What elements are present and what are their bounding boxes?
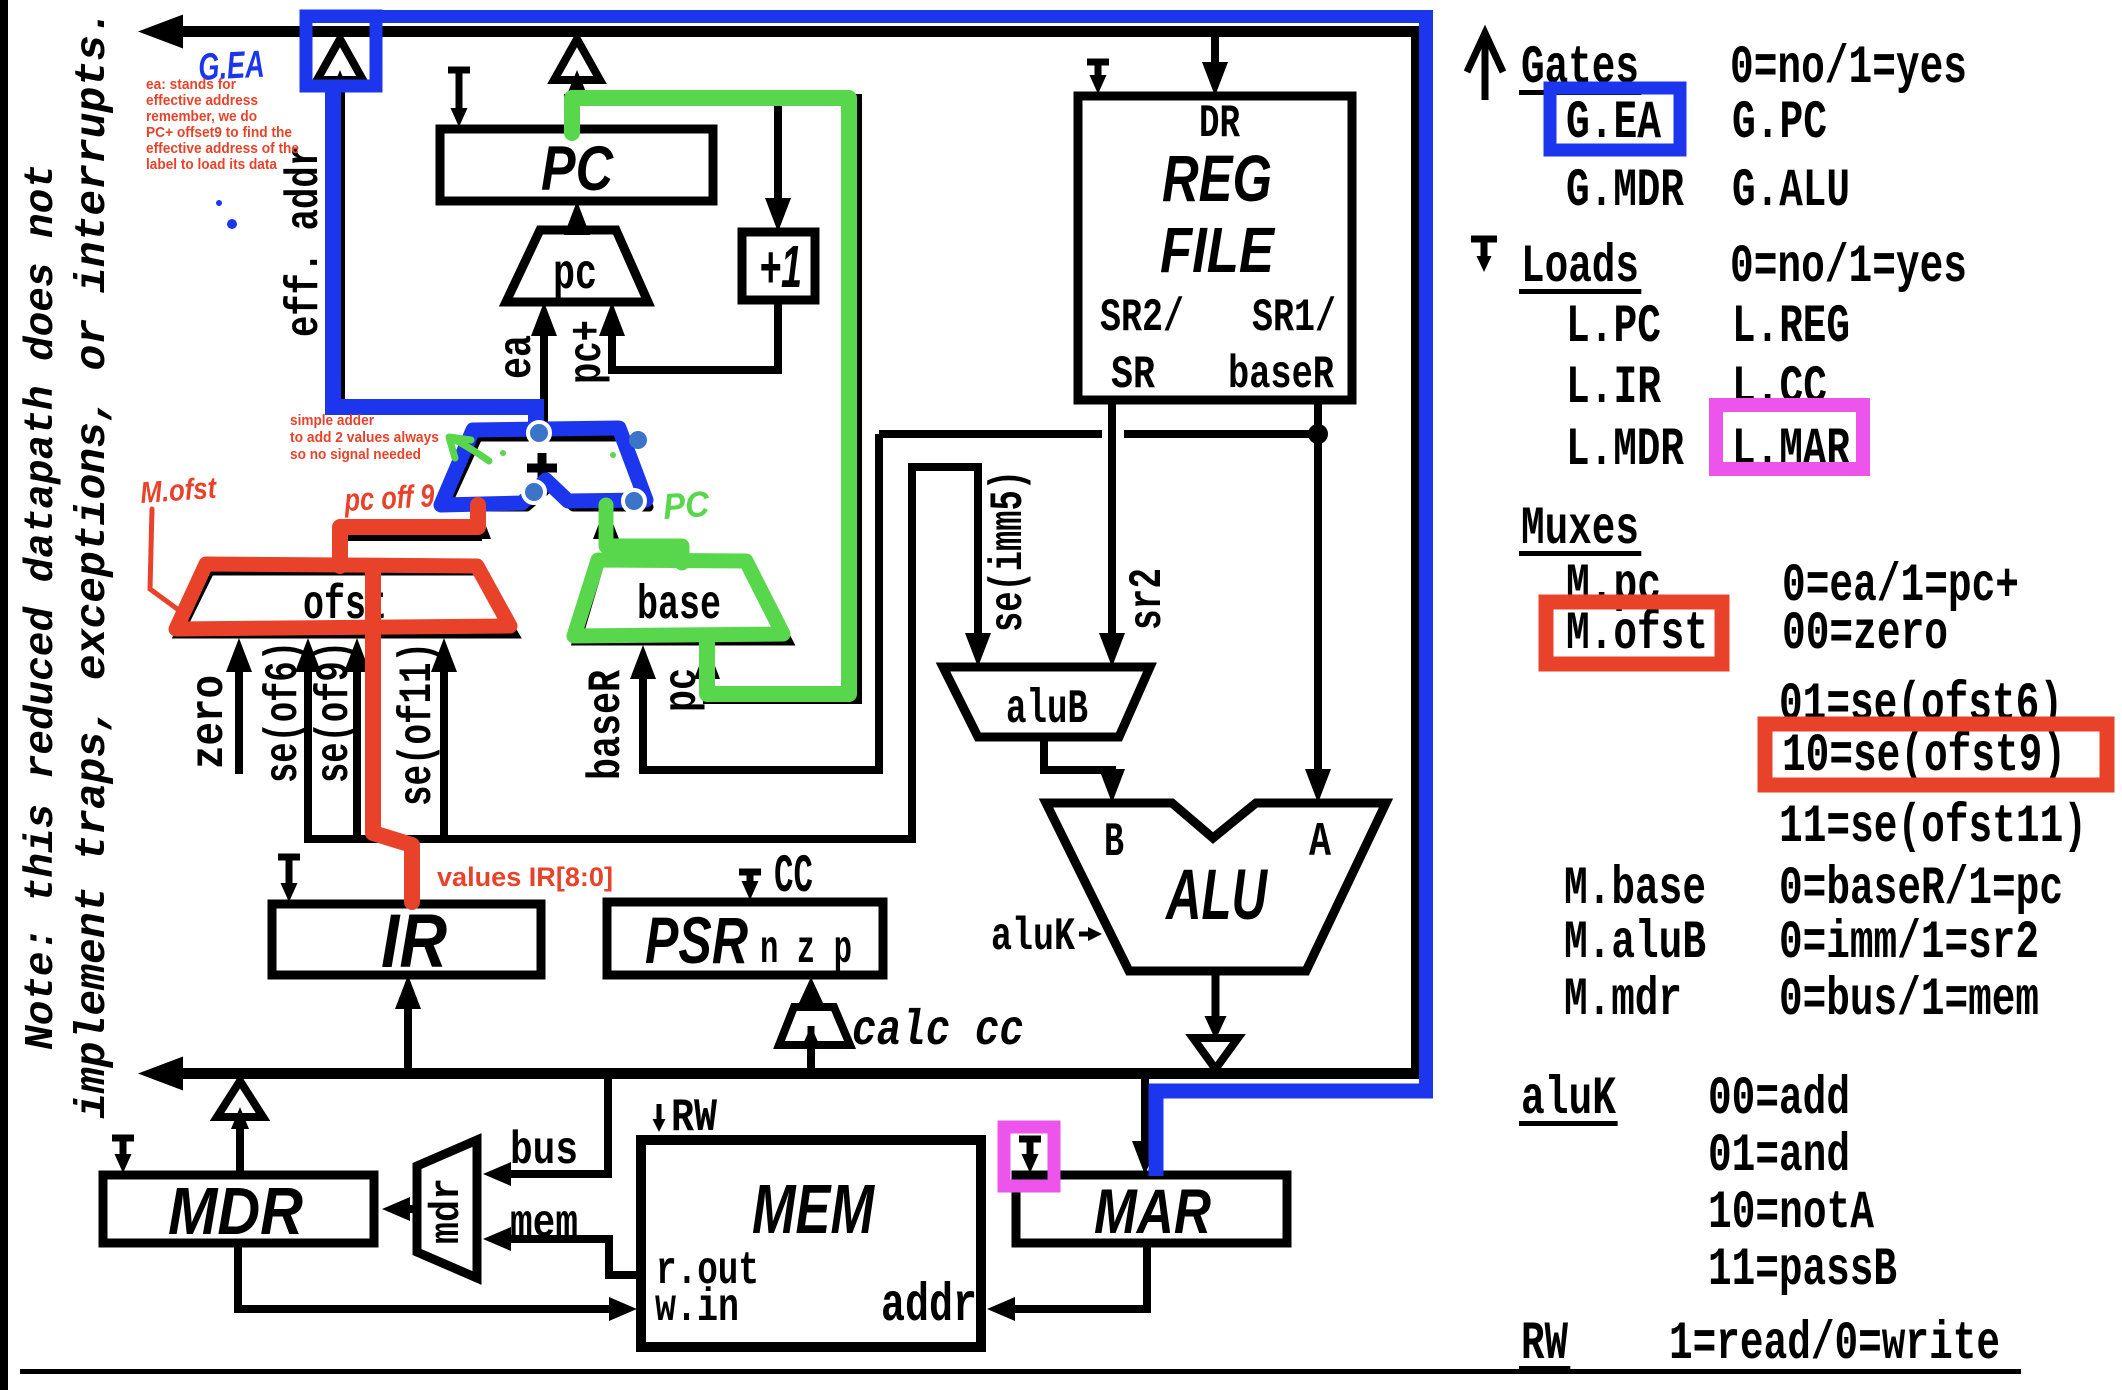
wire IR top riser to collector (404, 839, 412, 904)
svg-text:CC: CC (774, 847, 813, 908)
wire ofst-mux output to adder B input (344, 517, 478, 571)
memory MEM (641, 1140, 981, 1347)
svg-text:label to load its data: label to load its data (146, 156, 278, 173)
highlight blue bus top (G.EA to right) (300, 10, 1433, 23)
highlight green PC output wire (572, 98, 849, 694)
green speck 2 (610, 452, 616, 458)
svg-text:1=read/0=write: 1=read/0=write (1669, 1314, 2000, 1375)
handle dot bottom-left of adder (523, 481, 545, 503)
svg-text:PC: PC (662, 483, 712, 527)
svg-text:FILE: FILE (1160, 214, 1276, 286)
wire sr2 from regfile to aluB mux (1108, 400, 1116, 653)
bus bottom segment (158, 1068, 1419, 1079)
register PC (440, 129, 713, 201)
svg-text:PC+ offset9 to find the: PC+ offset9 to find the (146, 124, 292, 141)
highlight blue bus bottom jog to MAR (1156, 1091, 1433, 1176)
green hand arrow (449, 437, 489, 461)
wire baseR horizontal (gap at sr2 crossing) (879, 430, 1102, 438)
wire eff.addr: G.EA gate down to adder output branch (341, 80, 544, 411)
wire bus input to mdr mux (497, 1079, 608, 1174)
load L.CC symbol (739, 869, 761, 876)
svg-text:00=add: 00=add (1708, 1069, 1850, 1130)
node junction sr1/baseR (1308, 424, 1328, 444)
left page border line (0, 0, 8, 1390)
svg-text:aluK: aluK (991, 911, 1075, 963)
svg-text:10=notA: 10=notA (1708, 1183, 1874, 1244)
wire sr1 to ALU A input (1314, 434, 1322, 789)
wire sr1/baseR from regfile (1314, 400, 1322, 434)
svg-text:IR: IR (381, 899, 447, 984)
bus top segment (158, 26, 1419, 37)
gate G.MDR: MDR output to bus (236, 1129, 244, 1175)
svg-text:aluK: aluK (1521, 1069, 1616, 1130)
wire pc+: +1 output to M.pc mux (612, 300, 778, 370)
svg-text:M.mdr: M.mdr (1564, 970, 1682, 1031)
svg-text:baseR: baseR (1228, 349, 1334, 401)
load L.PC symbol (448, 67, 470, 74)
register MDR (103, 1175, 374, 1243)
highlight green base mux outline (574, 560, 783, 636)
svg-text:se(of6): se(of6) (258, 641, 310, 783)
svg-text:MDR: MDR (168, 1174, 303, 1249)
svg-text:values IR[8:0]: values IR[8:0] (437, 862, 613, 892)
legend blue box around G.EA (1550, 88, 1680, 150)
svg-text:simple adder: simple adder (290, 412, 374, 429)
wire bus to IR (404, 989, 412, 1068)
mux M.base (base) (577, 563, 788, 641)
wire ea: adder output up to M.pc mux (540, 316, 548, 433)
svg-text:01=and: 01=and (1708, 1126, 1850, 1187)
wire se(imm5) riser (912, 467, 978, 843)
svg-text:A: A (1309, 816, 1331, 870)
bus right segment (1411, 26, 1419, 1079)
wire +1 tap (774, 98, 782, 218)
highlight blue eff.addr wire (333, 92, 536, 430)
wire PC output loop (pc-out to +1 and base mux) (568, 98, 858, 700)
svg-text:MAR: MAR (1094, 1177, 1211, 1247)
svg-text:M.base: M.base (1564, 859, 1706, 920)
svg-text:REG: REG (1162, 141, 1272, 215)
wire base-mux output to adder A input (606, 517, 682, 563)
legend red box around M.ofst (1546, 602, 1722, 664)
legend red box around 10=se(ofst9) (1765, 724, 2107, 785)
svg-text:11=passB: 11=passB (1708, 1240, 1897, 1301)
wire baseR into base mux (643, 434, 879, 770)
svg-text:SR1/: SR1/ (1252, 292, 1336, 344)
svg-text:so no signal needed: so no signal needed (290, 446, 421, 463)
ALU (1046, 803, 1386, 971)
wire se(of9) into ofst mux (353, 652, 361, 843)
gate G.PC (tri-state onto bus) (554, 39, 600, 80)
wire se(of11) into ofst mux (440, 652, 448, 843)
svg-text:se(imm5): se(imm5) (983, 470, 1035, 632)
wire mdr mux output to MDR (398, 1205, 417, 1213)
register MAR (1016, 1175, 1287, 1243)
gate G.ALU: ALU output to bus (1212, 971, 1220, 1018)
bottom rule line (20, 1369, 2021, 1374)
bus bottom-left arrowhead (138, 1057, 183, 1091)
wire se(of6) into ofst mux (304, 652, 312, 843)
svg-text:bus: bus (510, 1125, 578, 1177)
bus top-left arrowhead (138, 15, 183, 49)
register IR (272, 904, 541, 975)
svg-text:G.MDR: G.MDR (1566, 161, 1684, 222)
highlight red IR[8:0] wire (373, 570, 412, 902)
svg-text:L.IR: L.IR (1566, 358, 1661, 419)
highlight blue box around G.EA gate (306, 16, 376, 86)
svg-text:RW: RW (671, 1092, 717, 1144)
magenta box around L.MAR load symbol at MAR (1004, 1127, 1054, 1186)
legend Loads arrow symbol (1471, 236, 1497, 243)
svg-text:w.in: w.in (655, 1282, 739, 1334)
green speck 1 (500, 450, 506, 456)
svg-text:to add 2 values always: to add 2 values always (290, 429, 439, 446)
svg-text:Muxes: Muxes (1521, 499, 1639, 560)
svg-text:implement traps, exceptions, o: implement traps, exceptions, or interrup… (68, 9, 117, 1119)
svg-text:n z p: n z p (760, 924, 852, 976)
load L.REG symbol (1087, 59, 1109, 66)
highlight green base output wire (606, 505, 682, 563)
svg-text:L.REG: L.REG (1732, 297, 1850, 358)
svg-text:L.PC: L.PC (1566, 297, 1661, 358)
wire IR-bits collector (304, 835, 916, 843)
svg-text:mdr: mdr (423, 1178, 471, 1244)
red pointer line from M.ofst (150, 509, 180, 611)
highlight blue adder outline (441, 428, 646, 505)
svg-text:pc+: pc+ (562, 320, 614, 384)
svg-text:M.ofst: M.ofst (139, 472, 219, 510)
load L.MAR symbol (1019, 1136, 1041, 1143)
svg-text:effective address of the: effective address of the (146, 140, 299, 157)
gate G.EA (tri-state onto bus) (317, 39, 363, 80)
mux M.pc (pc) (506, 230, 648, 302)
wire mem input to mdr mux (497, 1239, 641, 1275)
small blue dot 2 (227, 219, 237, 229)
svg-text:SR: SR (1111, 349, 1155, 401)
wire MDR to MEM w.in (238, 1243, 623, 1309)
svg-text:B: B (1104, 816, 1124, 870)
gate calc cc trapezoid (779, 1007, 850, 1045)
svg-text:baseR: baseR (581, 670, 633, 780)
mux M.aluB (aluB) (943, 667, 1150, 737)
highlight blue bus right vertical (1419, 17, 1433, 1092)
wire zero stub into ofst mux (235, 652, 243, 774)
svg-text:calc cc: calc cc (852, 1003, 1024, 1060)
svg-text:+1: +1 (759, 234, 802, 300)
svg-text:PSR: PSR (645, 903, 748, 977)
svg-text:ea: stands for: ea: stands for (146, 76, 236, 93)
svg-text:se(of11): se(of11) (392, 642, 444, 806)
svg-text:Loads: Loads (1521, 237, 1639, 298)
handle dot top of adder (528, 422, 550, 444)
svg-text:G.PC: G.PC (1732, 93, 1827, 154)
svg-text:se(of9): se(of9) (309, 641, 361, 783)
svg-text:SR2/: SR2/ (1100, 292, 1184, 344)
svg-text:zero: zero (184, 675, 236, 769)
svg-text:0=no/1=yes: 0=no/1=yes (1730, 237, 1967, 298)
svg-text:pc: pc (553, 247, 597, 304)
svg-text:MEM: MEM (752, 1170, 875, 1248)
svg-text:addr: addr (881, 1276, 977, 1337)
svg-text:0=bus/1=mem: 0=bus/1=mem (1779, 970, 2039, 1031)
svg-text:base: base (637, 579, 721, 633)
svg-text:M.aluB: M.aluB (1564, 913, 1706, 974)
svg-text:pc off 9: pc off 9 (343, 477, 436, 518)
block +1 (incrementer) (742, 232, 815, 300)
adder (+) block (446, 437, 649, 507)
svg-text:aluB: aluB (1006, 683, 1088, 737)
highlight red ofst mux outline (176, 564, 510, 629)
small blue dot 1 (216, 200, 222, 206)
svg-text:remember, we do: remember, we do (146, 108, 257, 125)
label + (adder) (527, 464, 557, 473)
wire MAR to MEM addr (1001, 1243, 1147, 1309)
legend Gates arrow symbol (1482, 36, 1489, 100)
svg-text:0=no/1=yes: 0=no/1=yes (1730, 38, 1967, 99)
legend magenta box around L.MAR (1716, 405, 1863, 469)
svg-text:G.ALU: G.ALU (1732, 161, 1850, 222)
svg-text:M.ofst: M.ofst (1566, 604, 1708, 665)
svg-text:eff. addr: eff. addr (279, 145, 331, 337)
handle dot bottom-right of adder (623, 490, 645, 512)
svg-text:11=se(ofst11): 11=se(ofst11) (1779, 797, 2087, 858)
svg-text:PC: PC (541, 134, 614, 204)
highlight red ofst output wire (340, 505, 478, 566)
wire aluB output to ALU B input (1044, 737, 1112, 789)
svg-text:RW: RW (1521, 1314, 1568, 1375)
load L.MDR symbol (112, 1135, 134, 1142)
register file REG FILE (1078, 96, 1352, 400)
svg-text:ea: ea (492, 335, 544, 379)
svg-text:mem: mem (510, 1198, 578, 1250)
blue dot right of adder (629, 431, 647, 449)
wire bus to PSR via calc cc (807, 999, 815, 1068)
wire M.pc mux to PC (573, 215, 581, 230)
wire DR input from bus (1211, 37, 1219, 82)
svg-text:effective address: effective address (146, 92, 258, 109)
load L.IR symbol (278, 854, 300, 861)
wire bus to MAR (1141, 1079, 1149, 1161)
svg-text:00=zero: 00=zero (1782, 604, 1948, 665)
mux M.mdr (mdr) (417, 1140, 477, 1278)
mux M.ofst (ofst) (179, 571, 514, 634)
svg-text:ALU: ALU (1165, 856, 1269, 935)
svg-text:sr2: sr2 (1122, 568, 1174, 630)
svg-text:0=imm/1=sr2: 0=imm/1=sr2 (1779, 913, 2039, 974)
svg-text:L.MDR: L.MDR (1566, 420, 1684, 481)
svg-text:0=baseR/1=pc: 0=baseR/1=pc (1779, 859, 2063, 920)
register PSR (607, 902, 883, 975)
label RW with down arrow (657, 1104, 662, 1126)
svg-text:Note: this reduced datapath do: Note: this reduced datapath does not (19, 164, 65, 1050)
